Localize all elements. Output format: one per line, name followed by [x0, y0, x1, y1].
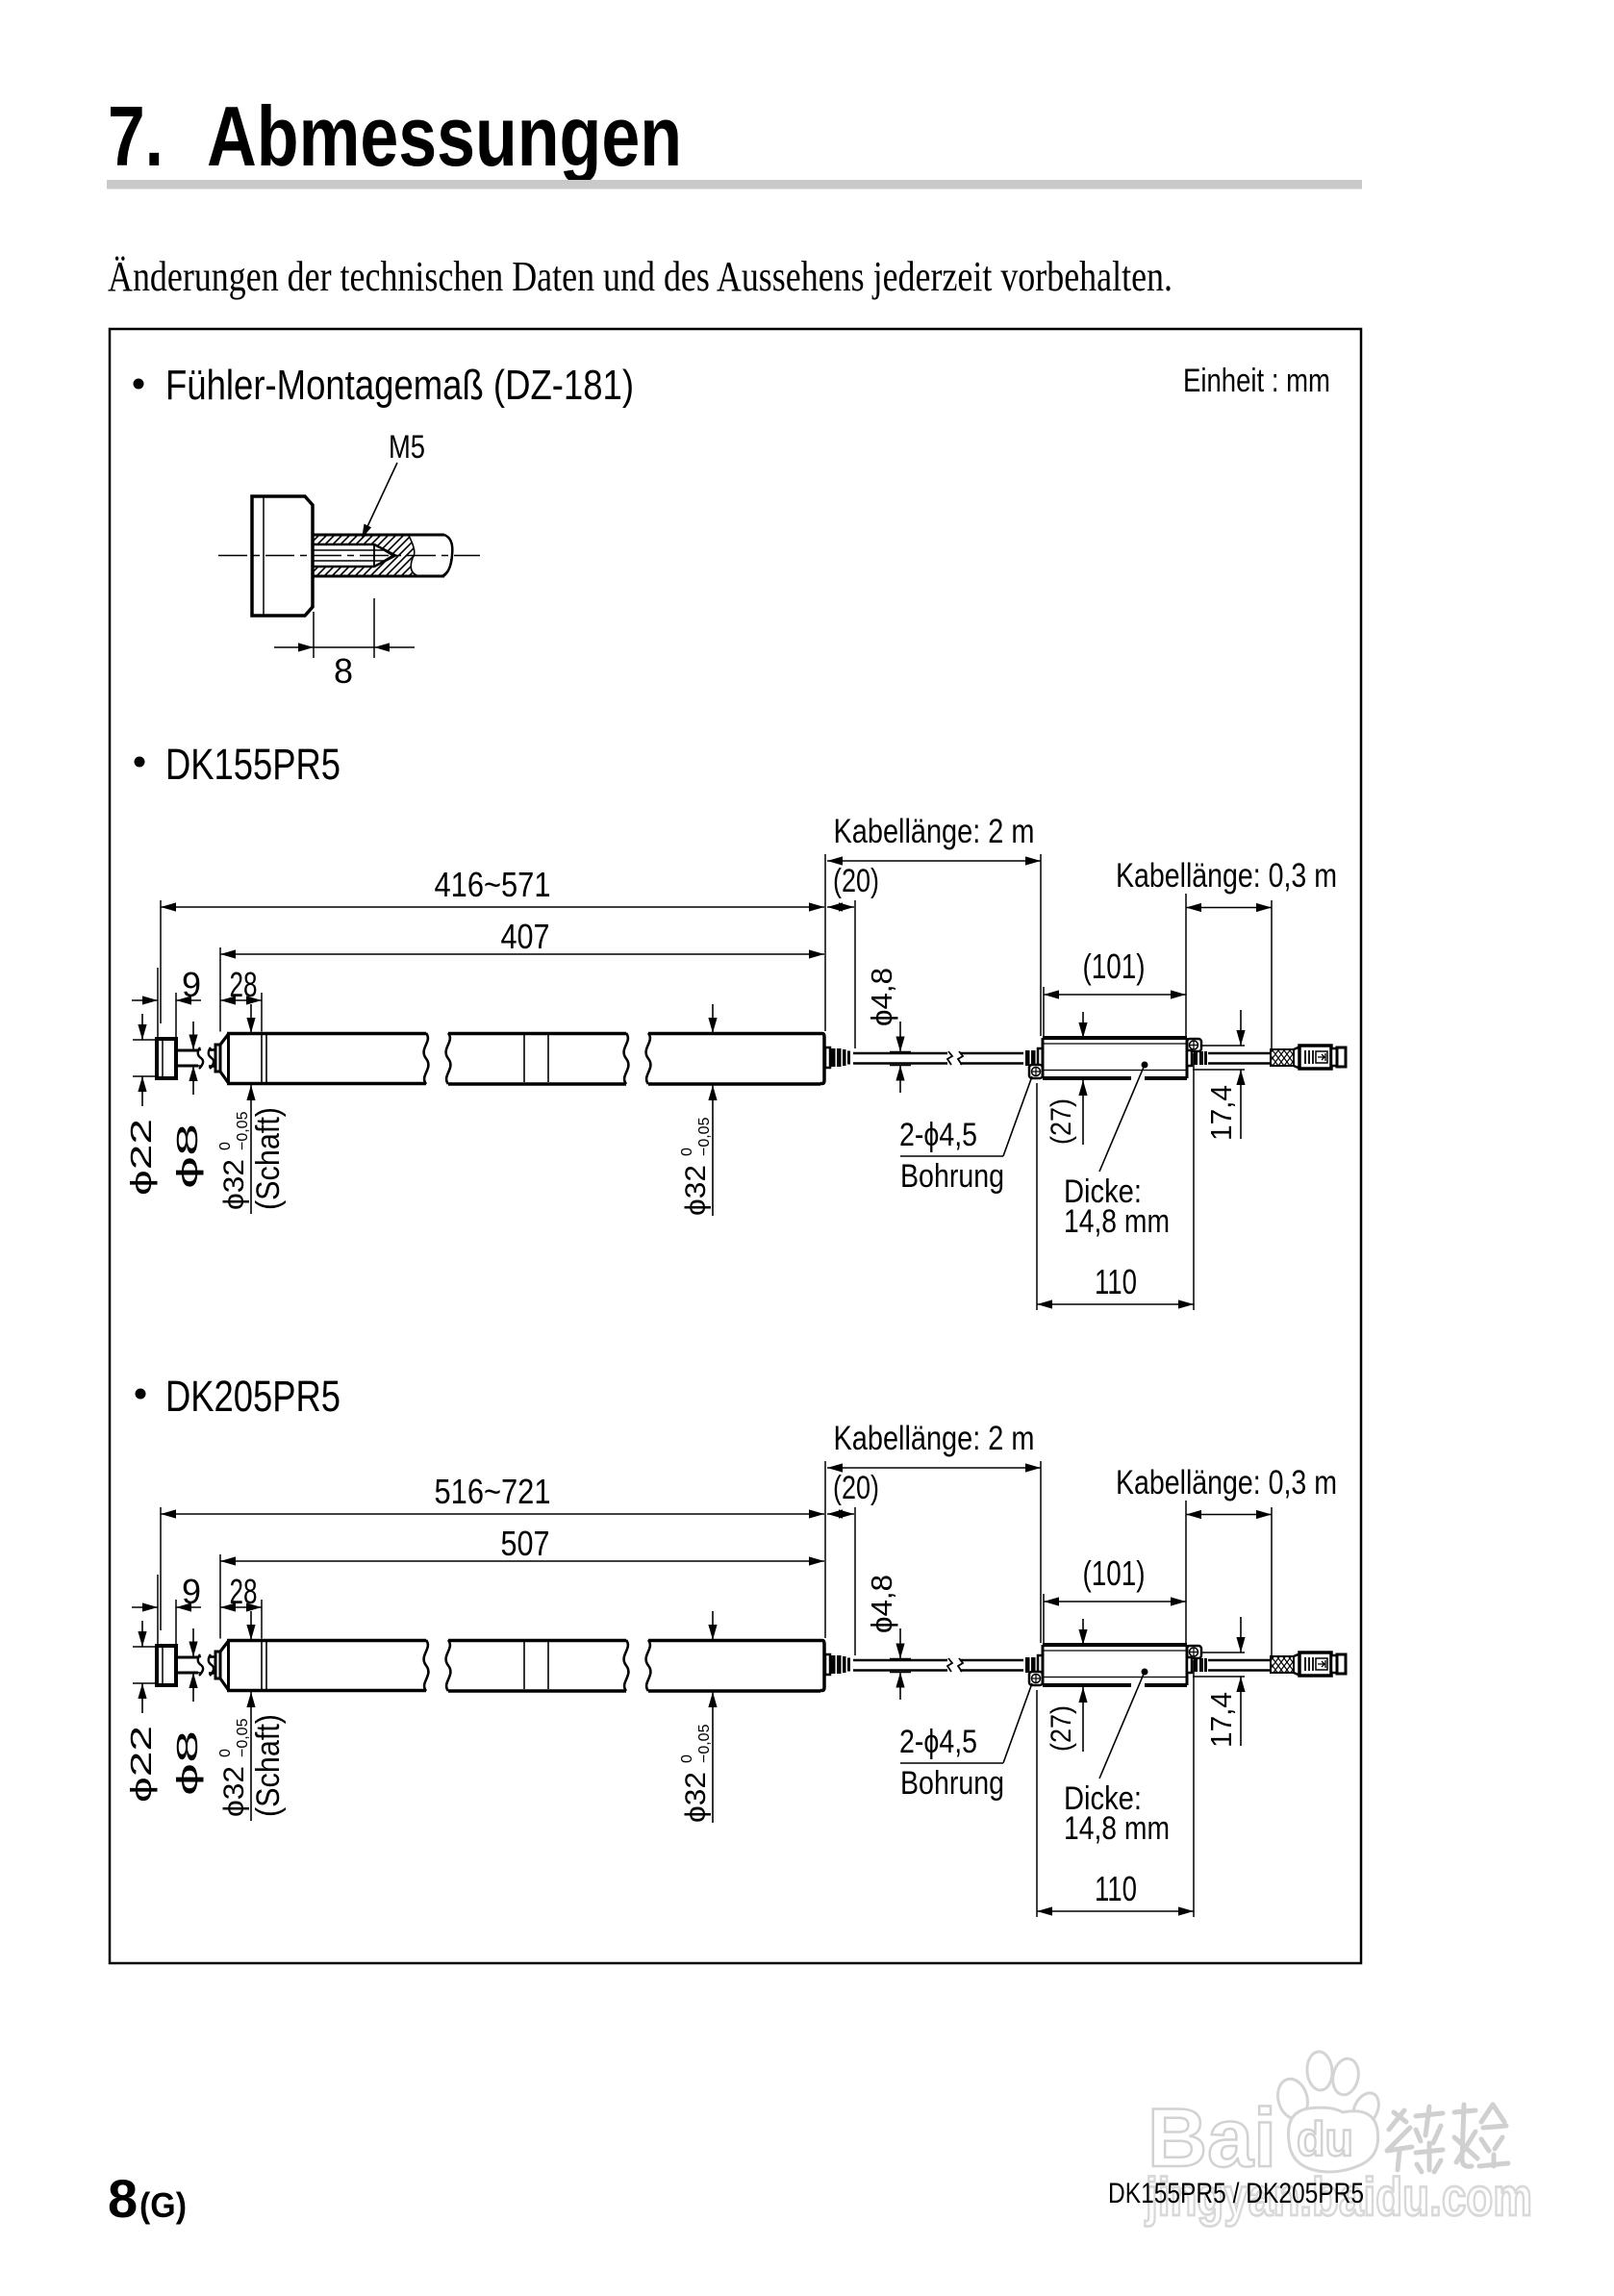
svg-text:(27): (27)	[1046, 1098, 1077, 1145]
dimension phi32 right	[712, 1611, 714, 1640]
svg-text:ϕ4,8: ϕ4,8	[865, 1575, 898, 1633]
dimension 8	[313, 612, 315, 658]
svg-text:7.: 7.	[108, 88, 164, 184]
cable gland at probe end	[825, 1654, 830, 1675]
svg-text:2-ϕ4,5: 2-ϕ4,5	[899, 1117, 977, 1153]
dimension phi22	[133, 1039, 157, 1041]
figure box frame	[110, 329, 1361, 1963]
cable gland at probe end	[825, 1047, 830, 1068]
dimension Kabellaenge: 2 m	[824, 854, 826, 1031]
label Dicke: 14,8 mm + leader	[1142, 1062, 1148, 1069]
gray rule under title	[107, 180, 1362, 189]
svg-text:Änderungen der technischen Dat: Änderungen der technischen Daten und des…	[108, 253, 1173, 300]
dimension phi8	[188, 1656, 201, 1658]
svg-text:0: 0	[217, 1142, 234, 1150]
svg-text:2-ϕ4,5: 2-ϕ4,5	[899, 1724, 977, 1760]
dimension (20)	[854, 900, 856, 1048]
svg-text:14,8 mm: 14,8 mm	[1064, 1810, 1170, 1847]
amplifier box body	[1043, 1036, 1187, 1040]
svg-text:−0,05: −0,05	[235, 1718, 251, 1757]
svg-text:ϕ22: ϕ22	[124, 1119, 158, 1196]
dimension phi32 (Schaft)	[250, 1611, 252, 1640]
svg-text:17,4: 17,4	[1204, 1085, 1238, 1141]
probe contact tip cap	[157, 1039, 176, 1078]
svg-text:Abmessungen: Abmessungen	[207, 88, 682, 184]
dimension body length	[219, 1554, 221, 1639]
dimension phi8	[188, 1049, 201, 1051]
cable (2 m) with break	[853, 1659, 947, 1662]
dimension 17,4	[1202, 1652, 1245, 1653]
dimension (101)	[1043, 1594, 1045, 1643]
dimension overall length	[160, 900, 162, 1023]
svg-text:110: 110	[1095, 1869, 1137, 1908]
svg-text:9: 9	[182, 965, 201, 1004]
svg-text:Kabellänge: 2 m: Kabellänge: 2 m	[834, 813, 1035, 850]
dimension 110	[1036, 1083, 1038, 1310]
svg-text:(Schaft): (Schaft)	[250, 1107, 287, 1210]
dimension 110	[1036, 1690, 1038, 1917]
svg-text:507: 507	[501, 1524, 550, 1563]
dimension Kabellaenge: 2 m	[824, 1461, 826, 1638]
dimension body length	[219, 947, 221, 1032]
dimension (101)	[1043, 987, 1045, 1036]
svg-text:(27): (27)	[1046, 1705, 1077, 1752]
svg-text:Fühler-Montagemaß (DZ-181): Fühler-Montagemaß (DZ-181)	[165, 362, 634, 409]
label Dicke: 14,8 mm + leader	[1142, 1669, 1148, 1676]
svg-text:(Schaft): (Schaft)	[250, 1714, 287, 1817]
probe nose collar	[215, 1045, 220, 1072]
screw shaft outline	[313, 534, 444, 537]
dimension phi4,8 cable	[890, 1051, 911, 1053]
bullet + section title DK155PR5	[135, 757, 145, 768]
svg-text:(20): (20)	[833, 1470, 879, 1506]
svg-text:ϕ8: ϕ8	[170, 1730, 204, 1796]
svg-text:Einheit : mm: Einheit : mm	[1183, 363, 1330, 399]
amplifier box mounting tabs	[1029, 1672, 1043, 1685]
mounting screw holes 2-phi4,5	[1032, 1068, 1041, 1076]
probe stem with break	[176, 1656, 198, 1659]
svg-text:−0,05: −0,05	[235, 1111, 251, 1150]
svg-text:ϕ32: ϕ32	[218, 1766, 250, 1817]
svg-text:28: 28	[230, 965, 258, 1004]
dimension overall length	[160, 1507, 162, 1630]
svg-text:M5: M5	[389, 429, 425, 466]
svg-text:110: 110	[1095, 1262, 1137, 1301]
dimension 9	[157, 1575, 159, 1644]
svg-text:Kabellänge: 0,3 m: Kabellänge: 0,3 m	[1116, 1464, 1337, 1501]
bullet + section title Fuehler-Montagemass (DZ-181)	[134, 379, 144, 390]
dimension Kabellaenge: 0,3 m	[1185, 894, 1187, 1036]
svg-text:8: 8	[334, 651, 353, 691]
output connector plug	[1299, 1653, 1331, 1676]
svg-text:Bohrung: Bohrung	[900, 1765, 1004, 1802]
svg-text:9: 9	[182, 1572, 201, 1611]
svg-text:(G): (G)	[139, 2185, 187, 2225]
svg-text:ϕ32: ϕ32	[218, 1159, 250, 1210]
svg-text:−0,05: −0,05	[696, 1724, 713, 1763]
dimension (27)	[1082, 1619, 1084, 1645]
svg-text:(20): (20)	[833, 863, 879, 899]
svg-text:DK205PR5: DK205PR5	[165, 1372, 340, 1421]
svg-text:516~721: 516~721	[435, 1472, 551, 1511]
probe nose collar	[215, 1652, 220, 1678]
svg-text:du: du	[1297, 2112, 1353, 2166]
svg-text:407: 407	[501, 917, 550, 956]
amplifier box mounting tabs	[1029, 1065, 1043, 1078]
svg-text:0: 0	[679, 1148, 695, 1156]
svg-text:28: 28	[230, 1572, 258, 1611]
dimension phi22	[133, 1646, 157, 1648]
dimension phi32 right	[712, 1004, 714, 1033]
svg-text:Kabellänge: 2 m: Kabellänge: 2 m	[834, 1420, 1035, 1457]
svg-text:(101): (101)	[1083, 1553, 1146, 1593]
DZ-181 screw: section hatching	[314, 535, 416, 576]
dimension 9	[157, 968, 159, 1037]
svg-text:8: 8	[108, 2168, 138, 2229]
watermark jingyan glyphs	[1387, 2105, 1508, 2172]
svg-text:0: 0	[217, 1749, 234, 1757]
outlet gland + 0,3 m cable	[1187, 1657, 1192, 1673]
probe body (shaft)	[220, 1034, 229, 1045]
probe body (shaft)	[220, 1641, 229, 1652]
svg-text:416~571: 416~571	[435, 865, 551, 904]
svg-text:ϕ4,8: ϕ4,8	[865, 968, 898, 1026]
cable (2 m) with break	[853, 1052, 947, 1055]
svg-text:17,4: 17,4	[1204, 1692, 1238, 1748]
svg-text:ϕ32: ϕ32	[680, 1165, 712, 1216]
dimension 28	[261, 993, 263, 1032]
svg-text:ϕ8: ϕ8	[170, 1123, 204, 1189]
svg-text:DK155PR5 / DK205PR5: DK155PR5 / DK205PR5	[1108, 2178, 1364, 2209]
dimension (27)	[1082, 1012, 1084, 1038]
svg-text:(101): (101)	[1083, 946, 1146, 986]
dimension phi4,8 cable	[890, 1658, 911, 1660]
amplifier box body	[1043, 1643, 1187, 1647]
amplifier box inlet gland	[1025, 1657, 1030, 1673]
dimension phi32 (Schaft)	[250, 1004, 252, 1033]
svg-text:ϕ22: ϕ22	[124, 1726, 158, 1803]
svg-text:0: 0	[679, 1754, 695, 1763]
dimension Kabellaenge: 0,3 m	[1185, 1501, 1187, 1643]
svg-text:DK155PR5: DK155PR5	[165, 740, 340, 789]
output connector plug	[1299, 1046, 1331, 1069]
dimension 17,4	[1202, 1045, 1245, 1047]
dimension 28	[261, 1600, 263, 1639]
outlet gland + 0,3 m cable	[1187, 1050, 1192, 1066]
svg-text:Bohrung: Bohrung	[900, 1158, 1004, 1195]
screw head	[252, 496, 313, 616]
amplifier box inlet gland	[1025, 1050, 1030, 1066]
braided strain relief	[1271, 1049, 1294, 1066]
bullet + section title DK205PR5	[136, 1389, 146, 1400]
svg-text:14,8 mm: 14,8 mm	[1064, 1203, 1170, 1240]
probe contact tip cap	[157, 1646, 176, 1685]
svg-text:ϕ32: ϕ32	[680, 1772, 712, 1823]
centerline	[218, 555, 480, 557]
mounting screw holes 2-phi4,5	[1032, 1675, 1041, 1683]
braided strain relief	[1271, 1656, 1294, 1673]
M5 tapped hole	[314, 543, 374, 546]
svg-text:Kabellänge: 0,3 m: Kabellänge: 0,3 m	[1116, 857, 1337, 895]
dimension (20)	[854, 1507, 856, 1655]
probe stem with break	[176, 1049, 198, 1052]
Baidu watermark paw logo	[1274, 2051, 1384, 2172]
svg-text:−0,05: −0,05	[696, 1117, 713, 1156]
